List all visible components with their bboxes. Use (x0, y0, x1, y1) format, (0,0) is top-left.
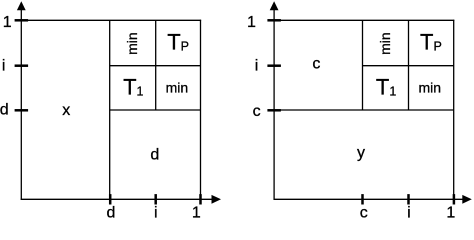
right axis tick i (267, 64, 281, 67)
svg-text:c: c (360, 205, 368, 221)
svg-text:d: d (106, 205, 115, 221)
right bottom tick c (361, 194, 364, 204)
svg-text:y: y (357, 145, 365, 162)
left square top edge (21, 19, 201, 21)
svg-text:c: c (253, 103, 261, 120)
right block horizontal line at i level (363, 65, 454, 67)
svg-text:min: min (377, 32, 393, 55)
left square horizontal line at d level (110, 109, 201, 111)
right diagram horizontal axis arrowhead (462, 195, 472, 204)
left axis tick 1 (15, 19, 29, 22)
svg-text:1: 1 (3, 14, 12, 31)
left diagram vertical axis (20, 7, 22, 200)
left axis tick i (15, 64, 29, 67)
left axis tick d (15, 109, 29, 112)
right axis tick c (267, 109, 281, 112)
right square right edge (453, 20, 455, 200)
svg-text:i: i (2, 58, 6, 75)
svg-text:i: i (407, 205, 411, 221)
svg-text:d: d (0, 102, 9, 119)
right diagram vertical axis (273, 7, 275, 200)
left diagram horizontal axis (21, 198, 213, 200)
right diagram horizontal axis (274, 198, 464, 200)
left square divider at d (full height vertical) (109, 20, 111, 199)
svg-text:1: 1 (446, 205, 455, 221)
svg-text:i: i (154, 205, 158, 221)
right axis tick 1 (267, 19, 281, 22)
left diagram horizontal axis arrowhead (212, 195, 222, 204)
left square divider at i (vertical, top part) (155, 20, 157, 110)
svg-text:min: min (419, 80, 442, 96)
right block middle vertical at i (408, 20, 410, 110)
svg-text:i: i (255, 58, 259, 75)
left bottom tick 1 (199, 194, 202, 204)
left bottom tick i (154, 194, 157, 204)
left square right edge (200, 20, 202, 200)
right bottom tick i (407, 194, 410, 204)
right square horizontal divider at c (full width) (274, 109, 454, 111)
right block left edge vertical at c (362, 20, 364, 110)
left bottom tick d (109, 194, 112, 204)
right bottom tick 1 (453, 194, 456, 204)
svg-text:x: x (62, 102, 70, 119)
right diagram vertical axis arrowhead (270, 1, 279, 10)
svg-text:min: min (166, 80, 189, 96)
right square top edge (274, 19, 454, 21)
svg-text:1: 1 (247, 14, 256, 31)
left square horizontal line at i level (110, 65, 201, 67)
svg-text:c: c (312, 56, 320, 73)
svg-text:d: d (150, 147, 159, 164)
left diagram vertical axis arrowhead (17, 1, 26, 10)
svg-text:1: 1 (192, 205, 201, 221)
svg-text:min: min (124, 32, 140, 55)
